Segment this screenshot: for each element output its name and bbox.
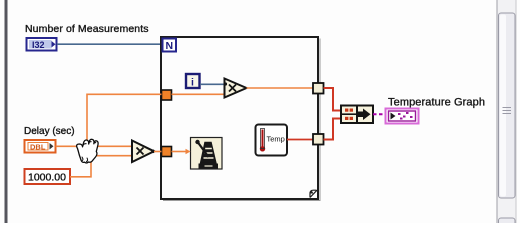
wire tunnel T2 to metronome	[172, 149, 191, 154]
metronome wait icon	[191, 138, 223, 170]
wire i to multiply U1	[200, 83, 224, 85]
svg-text:N: N	[166, 40, 174, 52]
svg-text:Temperature Graph: Temperature Graph	[388, 97, 485, 109]
wire I32 to N (int wire)	[57, 43, 161, 45]
tunnel T2 (ms in, left edge lower)	[162, 147, 172, 157]
label Temperature Graph	[388, 97, 485, 109]
scrollbar track	[497, 0, 517, 223]
bundle function	[341, 106, 373, 124]
wire multiply U2 to tunnel T2	[154, 151, 162, 153]
numeric constant 1000.00	[25, 169, 71, 184]
terminal Temperature Graph (waveform chart indicator)	[386, 109, 419, 124]
tunnel T3 (indexing out, right edge upper)	[313, 83, 324, 94]
terminal I32 (control)	[27, 38, 57, 51]
wire tunnel T1 to multiply U1	[172, 93, 225, 95]
scrollbar bottom button	[499, 218, 516, 228]
tunnel T1 (delay in, left edge upper)	[162, 90, 172, 100]
scrollbar thumb grips	[503, 108, 512, 114]
wire 1000.00 to multiply U2	[70, 156, 132, 177]
svg-text:Delay (sec): Delay (sec)	[24, 126, 75, 137]
wire tunnel T4 to bundle	[324, 119, 342, 140]
wire tunnel T3 to bundle (array)	[324, 88, 342, 111]
for loop frame	[161, 37, 320, 201]
svg-text:I32: I32	[32, 40, 45, 50]
scrollbar thumb	[499, 13, 516, 198]
operate tool hand cursor	[77, 139, 99, 163]
wire bundle to graph terminal (dashed cluster wire)	[373, 113, 385, 115]
multiply U2	[132, 141, 155, 163]
loop resize corner	[310, 190, 317, 197]
label Delay (sec)	[24, 126, 75, 137]
iteration terminal i	[186, 74, 200, 89]
terminal DBL (control)	[25, 140, 56, 153]
svg-text:Temp: Temp	[267, 135, 285, 144]
svg-text:1000.00: 1000.00	[28, 172, 66, 184]
wire DBL to multiply U2 and branch up to tunnel T1	[56, 94, 162, 146]
loop count terminal N	[163, 39, 177, 53]
tunnel T4 (right edge lower)	[313, 134, 324, 145]
wire Temp to tunnel T4	[287, 139, 313, 141]
svg-text:DBL: DBL	[30, 143, 46, 152]
svg-text:Number of Measurements: Number of Measurements	[25, 23, 149, 35]
label Number of Measurements	[25, 23, 149, 35]
multiply U1	[224, 79, 247, 98]
thermometer Temp VI	[256, 125, 288, 156]
wire multiply U1 to tunnel T3	[247, 87, 314, 89]
window left border	[5, 0, 8, 223]
svg-text:i: i	[191, 77, 194, 89]
